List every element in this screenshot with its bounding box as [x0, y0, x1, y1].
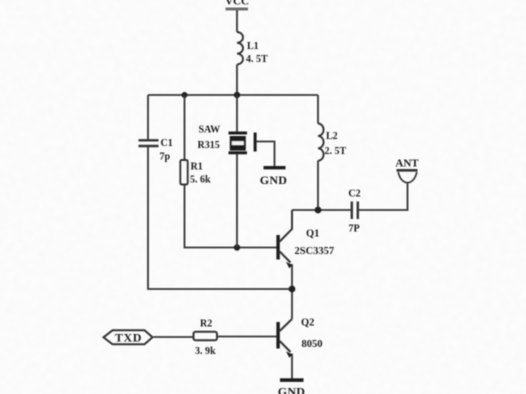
SAW label text	[198, 125, 221, 152]
VCC rail bar	[226, 8, 249, 11]
wire Q1 emitter to Q2 collector	[291, 264, 293, 319]
svg-text:2SC3357: 2SC3357	[295, 246, 335, 257]
wire Q2 emitter to ground	[291, 354, 293, 379]
L2 value label 2.5T	[325, 131, 347, 157]
svg-text:L1: L1	[247, 41, 259, 52]
resistor R2	[194, 332, 218, 340]
TXD input tag	[104, 330, 153, 344]
SAW resonator R315	[229, 132, 248, 155]
wire R1 to Q1 base	[185, 185, 277, 248]
resistor R1	[180, 160, 187, 185]
svg-text:7P: 7P	[348, 224, 359, 235]
C1 value label 7p	[160, 138, 173, 163]
antenna ANT	[397, 170, 418, 183]
wire VCC to L1	[236, 10, 238, 32]
capacitor C2	[352, 202, 358, 220]
L1 value label 4.5T	[246, 41, 268, 65]
wire left branch upper	[147, 95, 149, 140]
wire SAW to base wire	[236, 154, 238, 248]
node dot L2/collector rail	[315, 207, 322, 214]
svg-text:GND: GND	[260, 173, 288, 187]
svg-text:C1: C1	[161, 138, 173, 149]
svg-text:R315: R315	[198, 140, 220, 151]
capacitor C1	[139, 140, 159, 146]
R1 value label 5.6k	[190, 162, 211, 186]
Q1 label	[295, 229, 335, 258]
inductor L2	[318, 124, 324, 161]
svg-text:R2: R2	[200, 319, 212, 330]
svg-text:Q1: Q1	[306, 229, 319, 240]
svg-text:TXD: TXD	[115, 331, 142, 345]
node dot at R1/top rail	[182, 92, 188, 98]
R2 value label 3.9k	[195, 319, 216, 358]
svg-text:C2: C2	[348, 189, 360, 200]
node dot SAW/base wire	[234, 244, 240, 250]
wire left branch lower	[148, 146, 292, 289]
wire top rail to SAW	[236, 95, 238, 132]
node dot emitter/feedback	[289, 286, 296, 293]
wire collector rail	[292, 209, 351, 211]
svg-text:5. 6k: 5. 6k	[190, 175, 211, 186]
svg-text:VCC: VCC	[225, 0, 249, 8]
svg-text:4. 5T: 4. 5T	[246, 54, 268, 65]
ground bar (Q2)	[280, 378, 304, 382]
wire electrode to GND	[257, 142, 275, 167]
wire TXD to R2	[154, 336, 195, 338]
svg-text:GND: GND	[278, 385, 306, 394]
svg-text:R1: R1	[191, 162, 203, 173]
svg-text:SAW: SAW	[199, 125, 221, 136]
svg-text:Q2: Q2	[301, 318, 314, 329]
node dot at L1/top rail	[234, 92, 240, 98]
svg-text:2. 5T: 2. 5T	[325, 146, 347, 157]
C2 value label 7P	[348, 189, 360, 235]
svg-text:L2: L2	[326, 131, 338, 142]
wire top rail to L2	[317, 95, 319, 124]
transistor Q1 2SC3357	[276, 210, 292, 268]
Q2 label	[301, 318, 323, 351]
wire L1 to node	[236, 65, 238, 96]
transistor Q2 8050	[276, 319, 292, 358]
wire R1 branch top	[184, 95, 186, 160]
wire L2 to collector node	[317, 161, 319, 210]
svg-text:7p: 7p	[160, 152, 171, 163]
svg-text:ANT: ANT	[395, 158, 419, 170]
SAW side electrode	[254, 133, 257, 152]
svg-text:8050: 8050	[302, 339, 323, 350]
wire R2 to Q2 base	[218, 336, 277, 338]
ground bar (SAW)	[264, 166, 286, 169]
svg-text:3. 9k: 3. 9k	[195, 346, 216, 357]
wire C2 to antenna	[358, 182, 408, 210]
wire top rail	[148, 94, 318, 96]
inductor L1	[237, 32, 243, 64]
